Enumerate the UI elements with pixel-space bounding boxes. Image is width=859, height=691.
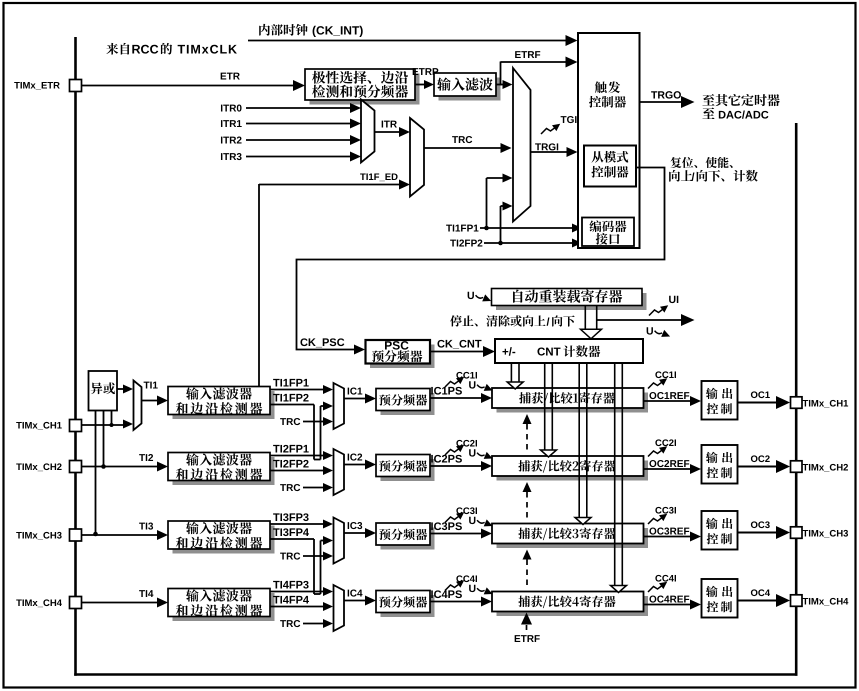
pin TIMx_CH3 right (791, 527, 849, 539)
wire IC2 (344, 460, 376, 470)
block PSC prescaler (366, 340, 435, 368)
mux IC3 selector (334, 518, 345, 564)
wire ITR2 (221, 135, 361, 145)
label IC2 (348, 454, 362, 461)
hollow arrow CNT to register 1 (507, 363, 523, 389)
wire ITR3 (221, 152, 361, 162)
wire IC1 (344, 394, 376, 404)
pin TIMx_CH4 left (16, 597, 81, 609)
wire TI4FP4 (270, 596, 333, 611)
wire slave mode control to PSC (297, 168, 665, 355)
hollow arrow CNT to register 2 (541, 363, 557, 457)
interrupt CC2I left (445, 440, 477, 455)
block output control 1 (702, 381, 738, 420)
chip boundary bottom (74, 673, 797, 676)
wire TI1FP1 to trigger (446, 174, 582, 233)
wire OC4REF (644, 596, 702, 610)
wire CK_INT (248, 35, 578, 46)
block input filter edge detector 1 (168, 387, 275, 420)
pin TIMx_CH2 left (16, 461, 81, 473)
wire OC1REF (644, 392, 702, 406)
interrupt CC1I right (648, 371, 676, 388)
wire TRGO (640, 91, 695, 108)
block CNT counter (495, 339, 643, 363)
mux IC1 selector (334, 383, 345, 429)
block prescaler channel 1 (376, 389, 435, 416)
hollow arrow CNT to register 4 (611, 363, 627, 593)
wire OC2REF (644, 460, 702, 474)
block slave mode controller (584, 146, 636, 187)
wire IC4 (344, 596, 376, 606)
wire IC3PS (430, 522, 492, 538)
label to other timers to DAC ADC (702, 94, 779, 119)
block capture compare register 2 (492, 456, 648, 481)
wire TRGI (531, 143, 578, 157)
mux TI1 selector (134, 381, 142, 431)
label IC3 (348, 522, 363, 529)
wire ITR0 (221, 103, 361, 113)
block output control 3 (702, 511, 738, 550)
mux IC2 selector (334, 449, 345, 495)
wire TI1 direct from pin (82, 420, 134, 429)
hollow arrow ARR to CNT (581, 306, 602, 339)
block output control 2 (702, 445, 738, 484)
block input filter edge detector 3 (168, 521, 275, 554)
event U into register 4 (469, 585, 492, 595)
mux trigger input selector (513, 68, 531, 222)
wire XOR output (117, 385, 133, 394)
wire OC3REF (644, 528, 702, 542)
wire ITR1 (221, 119, 361, 129)
interrupt TGI (541, 116, 577, 134)
dashed capture arrow register 3 to 2 (523, 482, 532, 520)
label IC1 (348, 388, 363, 395)
wire ITR (375, 121, 411, 137)
wire TRC channel 1 (280, 417, 333, 426)
wire TI4 (82, 590, 169, 607)
dashed capture arrow register 4 to 3 (523, 550, 532, 588)
block encoder interface (582, 218, 634, 247)
pin TIMx_CH1 left (16, 420, 81, 432)
block prescaler channel 3 (376, 523, 435, 550)
label stop clear up down (450, 315, 575, 326)
block capture compare register 1 (492, 388, 648, 413)
wire TI3FP3 (270, 513, 333, 528)
wire update event right (597, 314, 695, 326)
wire TI3FP4 down (270, 528, 333, 594)
wire IC3 (344, 528, 376, 538)
wire IC1PS (430, 387, 492, 403)
wire IC4PS (430, 590, 492, 606)
wire TI1FP2 down (270, 394, 333, 460)
wire TRC channel 3 (280, 552, 333, 561)
pin TIMx_CH2 right (791, 461, 849, 473)
chip boundary right (795, 123, 798, 676)
wire XOR input from CH2 (101, 411, 106, 469)
label TI1 (144, 382, 158, 389)
block XOR (89, 371, 118, 411)
wire OC2 (738, 455, 791, 473)
label ETRP (413, 68, 439, 75)
pin TIMx_ETR (14, 80, 81, 92)
block trigger controller (578, 33, 640, 248)
wire TI4FP3 (270, 581, 333, 596)
block prescaler channel 4 (376, 591, 435, 618)
block prescaler channel 2 (376, 455, 435, 482)
wire TI2 (82, 454, 169, 471)
wire TI2FP2 (270, 460, 333, 475)
event U into register 1 (469, 381, 492, 391)
pin TIMx_CH3 left (16, 529, 81, 541)
pin TIMx_CH1 right (791, 397, 849, 409)
label internal clock CK_INT (259, 24, 362, 37)
wire TI1F_ED (259, 173, 410, 387)
wire XOR input from CH1 (110, 411, 114, 428)
wire TI3 (82, 523, 169, 540)
wire ETRF (496, 51, 578, 89)
interrupt CC3I right (648, 507, 676, 524)
block input filter edge detector 2 (168, 453, 275, 486)
wire XOR input from CH3 (93, 411, 98, 537)
mux ITR selector (361, 100, 375, 163)
wire ETRF into register 4 (515, 613, 540, 643)
interrupt CC2I right (648, 439, 676, 456)
hollow arrow CNT to register 3 (575, 363, 591, 525)
wire CK_CNT (430, 340, 495, 357)
wire OC3 (738, 521, 791, 539)
event U below update line (647, 327, 670, 337)
pin TIMx_CH4 right (791, 595, 849, 607)
label reset enable up down count (669, 157, 758, 182)
event U into auto-reload (468, 292, 491, 302)
wire OC1 (738, 391, 791, 409)
block input filter ETR (434, 73, 501, 101)
dashed capture arrow register 2 to 1 (523, 414, 532, 452)
interrupt CC4I left (445, 575, 477, 590)
interrupt CC4I right (648, 575, 676, 592)
block polarity selection edge detector prescaler (305, 69, 420, 105)
label IC4 (348, 590, 363, 597)
mux TRC selector (410, 118, 424, 197)
interrupt CC3I left (445, 507, 477, 522)
wire TI1 (142, 396, 169, 406)
wire TI1FP1 (270, 379, 333, 394)
block auto-reload register (492, 289, 647, 311)
wire ETR (82, 73, 306, 91)
block capture compare register 3 (492, 524, 648, 549)
event U into register 3 (469, 517, 492, 527)
block output control 4 (702, 579, 738, 618)
wire IC2PS (430, 455, 492, 471)
wire TRC main (424, 136, 512, 153)
wire ETRP (415, 80, 434, 89)
mux IC4 selector (334, 585, 345, 631)
wire TRC channel 4 (280, 619, 333, 628)
block capture compare register 4 (492, 592, 648, 617)
block input filter edge detector 4 (168, 589, 275, 622)
label TIMxCLK from RCC (106, 43, 237, 55)
interrupt UI (649, 296, 678, 316)
wire TI2FP2 to trigger (450, 202, 582, 248)
label CK_PSC (300, 338, 344, 347)
event U into register 2 (469, 449, 492, 459)
wire TRC channel 2 (280, 483, 333, 492)
wire OC4 (738, 589, 791, 607)
wire TI2FP1 (270, 445, 333, 460)
chip boundary left (74, 37, 77, 676)
interrupt CC1I left (445, 372, 477, 387)
